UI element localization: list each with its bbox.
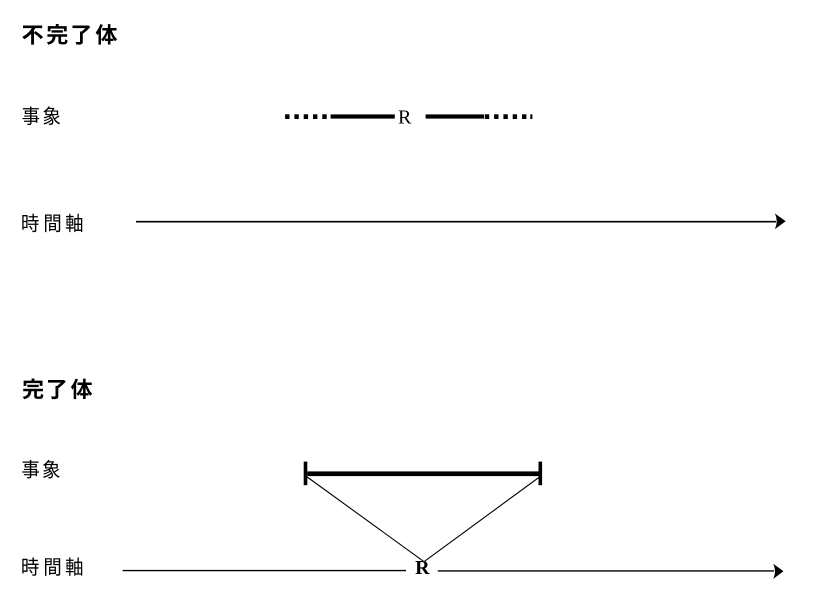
- event bar with end caps: [304, 462, 542, 486]
- heading: 不完了体 (imperfective aspect): [22, 24, 117, 45]
- time axis arrow, top section: [136, 214, 786, 230]
- time axis arrow, bottom section (interrupted by R): [123, 564, 784, 579]
- label: 時間軸 (time axis), top section: [22, 214, 82, 232]
- projection line from left end of event bar to R: [307, 477, 424, 562]
- label: 時間軸 (time axis), bottom section: [22, 557, 82, 575]
- heading: 完了体 (perfective aspect): [23, 379, 93, 400]
- event line: left solid segment: [331, 114, 395, 118]
- event line: left dotted segment: [285, 114, 327, 119]
- projection line from right end of event bar to R: [425, 477, 541, 562]
- label: 事象 (event), top section: [23, 106, 61, 125]
- svg-text:R: R: [398, 107, 412, 129]
- svg-text:R: R: [415, 557, 430, 579]
- label: 事象 (event), bottom section: [22, 460, 59, 479]
- event line: right solid segment: [426, 114, 484, 118]
- event line: right dotted segment: [485, 114, 533, 119]
